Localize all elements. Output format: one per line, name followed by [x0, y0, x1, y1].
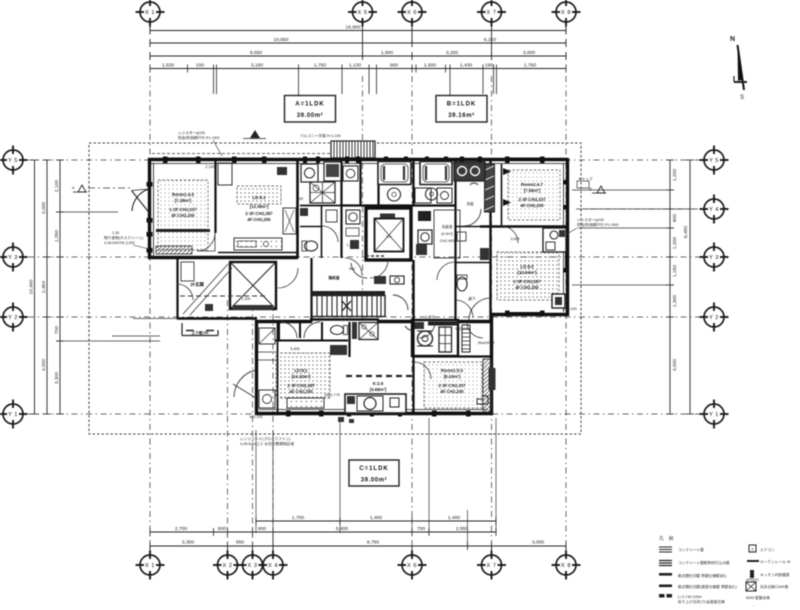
axis marker X4 bottom: [259, 551, 288, 580]
svg-text:LD:8.1: LD:8.1: [294, 368, 308, 373]
svg-text:エアコン: エアコン: [760, 547, 775, 552]
axis marker Y2 right: [700, 303, 729, 332]
corridor door arc mid: [345, 258, 362, 275]
wall C corridor y356: [413, 355, 492, 357]
wall partition x413 upper: [412, 160, 414, 206]
section marker A' right: [589, 186, 606, 193]
legend row concrete insulated wall: [659, 560, 730, 566]
grid line Y4 dash-dot right: [576, 208, 700, 210]
svg-text:洗面: 洗面: [466, 201, 474, 206]
corner fixture cluster unit B top: [454, 162, 485, 185]
svg-text:6,250: 6,250: [484, 37, 497, 43]
svg-text:3,250: 3,250: [446, 50, 459, 56]
toilet A: [302, 241, 318, 251]
svg-text:Y 4: Y 4: [709, 207, 719, 213]
svg-text:Y 2: Y 2: [8, 315, 18, 321]
unit label box A: [285, 96, 336, 123]
svg-text:[4.0m²]: [4.0m²]: [441, 232, 452, 236]
svg-text:折り上げ天井(ウ)全居室仕様: 折り上げ天井(ウ)全居室仕様: [678, 599, 725, 604]
wall partition x455: [454, 160, 456, 320]
svg-text:4,000: 4,000: [41, 202, 47, 215]
washbasin unit A hatched: [310, 182, 335, 203]
unit A LD dotted area: [237, 186, 281, 222]
unit C toilet: [331, 326, 348, 335]
svg-text:X 7: X 7: [487, 563, 497, 569]
svg-text:4,000: 4,000: [672, 359, 678, 372]
svg-text:8,650: 8,650: [250, 50, 263, 56]
svg-text:洗面室: 洗面室: [441, 224, 452, 229]
svg-text:3,300: 3,300: [54, 372, 60, 385]
sliding door marks bedroom B: [503, 168, 511, 175]
axis marker X5 top: [348, 0, 377, 27]
svg-text:2·3F:CH2,337: 2·3F:CH2,337: [438, 383, 466, 388]
wall lower wing top-left segment: [255, 320, 312, 323]
axis marker X7 top: [477, 0, 506, 27]
wall partition x360 upper: [359, 160, 361, 205]
dark cell B: [418, 211, 431, 221]
legend row L=2730: [659, 594, 725, 604]
dimension line top row3: 8,650 / 2,000 / 3,250 / 3,000: [150, 50, 566, 60]
svg-text:2,700: 2,700: [175, 526, 188, 532]
washbasin B: [418, 230, 432, 244]
svg-text:2,550: 2,550: [456, 526, 469, 532]
svg-text:[14.22m²]: [14.22m²]: [292, 374, 311, 379]
wall balcony left face: [153, 163, 155, 256]
svg-text:Y 1: Y 1: [8, 412, 18, 418]
wall bottom of unit A block: [148, 256, 298, 259]
dimension line bottom row2: [150, 526, 496, 536]
svg-text:K:2.6: K:2.6: [373, 381, 384, 386]
svg-text:物干金物(ホスクリーン): 物干金物(ホスクリーン): [104, 235, 143, 240]
svg-text:1,675: 1,675: [425, 315, 434, 319]
extension lines bottom: [256, 418, 496, 547]
stair hall walls: [310, 258, 312, 322]
svg-text:Y 1: Y 1: [709, 412, 719, 418]
wall partition x341: [340, 160, 342, 258]
svg-text:X 6: X 6: [407, 10, 417, 16]
interior door arcs: [177, 226, 518, 379]
svg-text:905: 905: [297, 197, 303, 201]
svg-text:1,500: 1,500: [424, 63, 437, 69]
leader text hosu-kanamono left: [104, 231, 149, 249]
wall stairhall right x413 lower: [412, 260, 414, 322]
svg-text:960: 960: [390, 63, 398, 69]
shower room A dark: [324, 162, 352, 181]
svg-text:廊下: 廊下: [468, 296, 476, 301]
axis marker Y3 left: [0, 243, 28, 272]
svg-text:· ·: · ·: [752, 604, 755, 608]
leader text right side: [567, 217, 619, 234]
unit C kitchen dark block: [412, 320, 458, 356]
axis connector stubs bottom: [150, 532, 566, 554]
closet B hatched strip: [485, 164, 495, 212]
svg-text:3,300: 3,300: [182, 540, 195, 546]
unit label box B: [436, 96, 487, 123]
wall party A/B x297: [296, 160, 299, 258]
axis marker Y3 right: [700, 243, 729, 272]
legend row ceiling access: [746, 578, 789, 591]
svg-text:防虫/防雨網戸付 /FL+500: 防虫/防雨網戸付 /FL+500: [178, 135, 220, 140]
svg-text:乾式間仕切壁 界壁仕様壁含む: 乾式間仕切壁 界壁仕様壁含む: [678, 573, 727, 578]
svg-text:8,750: 8,750: [367, 540, 380, 546]
svg-text:WD,100: WD,100: [249, 415, 262, 419]
wall right inner face: [563, 163, 565, 312]
svg-text:10,450: 10,450: [29, 279, 35, 294]
svg-text:6,450: 6,450: [683, 226, 689, 239]
axis connector stubs top: [150, 23, 566, 56]
dimension line left middle 4,000/2,464/4,000: [41, 160, 51, 414]
svg-text:1,700: 1,700: [292, 515, 305, 521]
legend row kitchen door: [750, 570, 790, 578]
svg-text:[8.10m²]: [8.10m²]: [444, 374, 461, 379]
svg-text:N: N: [730, 36, 735, 43]
svg-text:WD,100: WD,100: [455, 327, 468, 331]
svg-text:1,130: 1,130: [349, 63, 362, 69]
svg-text:2·3F:CH2,387: 2·3F:CH2,387: [245, 211, 273, 216]
unit C corridor dashes: [346, 375, 412, 377]
lower-left strip unit C: [258, 322, 278, 414]
svg-text:190: 190: [485, 63, 493, 69]
svg-text:C=1LDK: C=1LDK: [359, 466, 389, 472]
window openings top wall: [163, 157, 545, 164]
bath unit B2: [420, 162, 452, 201]
svg-text:[7.56m²]: [7.56m²]: [524, 188, 541, 193]
svg-text:LD:8.1: LD:8.1: [252, 195, 266, 200]
dimension line top row4 detail segments: [150, 63, 566, 96]
svg-text:Room1:5.0: Room1:5.0: [441, 368, 464, 373]
svg-text:4F:CH2,250: 4F:CH2,250: [247, 217, 271, 222]
section marker A left: [72, 185, 130, 192]
closet strip right unit C: [483, 359, 491, 412]
svg-text:1,750: 1,750: [524, 63, 537, 69]
svg-text:39.00m²: 39.00m²: [361, 477, 388, 484]
svg-text:700: 700: [54, 326, 60, 334]
genkan shoe box: [181, 262, 194, 281]
corridor small dims: [205, 165, 576, 419]
svg-text:Y 3: Y 3: [8, 255, 18, 261]
svg-text:APW20: APW20: [746, 578, 759, 582]
wall partition A bedroom/LD x215: [214, 160, 216, 233]
svg-text:バルコニー手摺 H=1,100: バルコニー手摺 H=1,100: [300, 133, 341, 138]
svg-text:Room1:4.7: Room1:4.7: [521, 182, 544, 187]
svg-text:コンクリート壁: コンクリート壁: [678, 547, 704, 552]
svg-text:天井点検口450角: 天井点検口450角: [760, 584, 789, 589]
svg-text:6000 配管余長: 6000 配管余長: [746, 595, 770, 600]
dimension line top overall 16,900: [150, 25, 566, 35]
svg-text:3,000: 3,000: [532, 540, 545, 546]
genkan diagonal slope mark: [183, 264, 232, 315]
svg-text:960: 960: [349, 267, 355, 271]
legend row dry partition sound wall: [659, 584, 737, 589]
legend row dry partition wall: [659, 573, 727, 578]
bath B2 lower cells: [415, 188, 452, 203]
svg-text:[4.68m²]: [4.68m²]: [370, 387, 387, 392]
svg-text:600: 600: [218, 526, 226, 532]
void box with X cross: [230, 262, 276, 310]
svg-text:1,300: 1,300: [672, 295, 678, 308]
leader text below plan: [240, 436, 294, 446]
svg-text:950: 950: [236, 540, 244, 546]
unit A furniture marks: [156, 229, 210, 232]
left extension ticks: [56, 212, 160, 341]
wall under stairs: [310, 318, 379, 320]
entry door arc unit C: [233, 370, 256, 398]
svg-text:4F:CH2,200: 4F:CH2,200: [171, 213, 195, 218]
svg-text:コンクリート壁断熱材打込み壁: コンクリート壁断熱材打込み壁: [678, 560, 730, 565]
dimension line right outer: [683, 160, 694, 414]
unit B LD dotted area: [497, 252, 559, 300]
wall A kitchen counter bottom y250: [218, 252, 298, 254]
axis marker X1 top: [136, 0, 165, 27]
svg-text:Y 5: Y 5: [8, 158, 18, 164]
axis marker X2 bottom: [213, 551, 242, 580]
svg-text:X 8: X 8: [561, 10, 571, 16]
washer unit B: [343, 166, 358, 181]
wall lower wing bottom: [255, 412, 493, 415]
svg-text:2·3F:CH2,387: 2·3F:CH2,387: [287, 383, 315, 388]
wall bottom of unit B block: [491, 313, 568, 316]
svg-text:1,400: 1,400: [448, 515, 461, 521]
axis marker X3 bottom: [238, 551, 267, 580]
grid line X6 dash-dot: [411, 76, 413, 550]
section marker top filled: [243, 130, 266, 139]
svg-text:4,28-6SSTA/上400: 4,28-6SSTA/上400: [104, 240, 135, 245]
svg-text:キャップ: キャップ: [578, 176, 593, 181]
svg-text:階段室: 階段室: [328, 275, 339, 280]
svg-text:2,464: 2,464: [41, 281, 47, 294]
grid line X4 dash-dot: [272, 300, 274, 550]
svg-text:レンジフード(プロペラファン): レンジフード(プロペラファン): [240, 436, 290, 441]
axis marker X8 bottom: [552, 551, 581, 580]
closet box LD A: [218, 163, 232, 185]
svg-text:レジスターφ100: レジスターφ100: [178, 130, 205, 135]
svg-text:2F玄関: 2F玄関: [190, 281, 204, 288]
axis marker Y1 right: [700, 400, 729, 429]
grid line X7 dash-dot: [491, 76, 493, 550]
svg-text:UB:1,775: UB:1,775: [324, 393, 339, 397]
svg-text:1,530: 1,530: [162, 63, 175, 69]
svg-text:4F:CH2,250: 4F:CH2,250: [515, 285, 539, 290]
balcony door arc unit A: [132, 189, 150, 213]
washer unit A: [301, 164, 318, 182]
svg-text:SteelShelf: SteelShelf: [478, 341, 496, 345]
svg-text:10,650: 10,650: [274, 37, 289, 43]
svg-text:3,625: 3,625: [510, 237, 519, 241]
axis marker X1 bottom: [136, 551, 165, 580]
site boundary dashed rectangle: [89, 143, 581, 434]
svg-text:L=2,730-100m: L=2,730-100m: [678, 595, 702, 599]
dark kitchen box B: [552, 294, 565, 308]
genkan dashed floor: [180, 295, 265, 297]
svg-text:エ: エ: [751, 547, 755, 551]
staircase treads: [312, 291, 385, 317]
axis marker Y2 left: [0, 303, 28, 332]
svg-text:X 8: X 8: [561, 563, 571, 569]
axis marker X6 bottom: [398, 551, 427, 580]
svg-text:X 7: X 7: [487, 10, 497, 16]
wall lower wing top-right segment: [377, 320, 492, 323]
dimension line bottom row3: [256, 515, 496, 525]
svg-text:上り框150: 上り框150: [191, 330, 208, 335]
grid line X1 dash-dot: [149, 76, 151, 550]
svg-text:凡 例: 凡 例: [659, 535, 675, 542]
wall partition x378 upper: [377, 160, 379, 206]
svg-text:1,430: 1,430: [460, 63, 473, 69]
svg-text:1,900: 1,900: [381, 50, 394, 56]
outdoor stair top hatched: [331, 141, 375, 158]
grid line Y2 dash-dot: [28, 316, 700, 318]
unit C bathroom cluster top: [275, 322, 417, 357]
wall B closet x501: [501, 164, 503, 226]
svg-text:800: 800: [672, 214, 678, 222]
axis marker X6 top: [398, 0, 427, 27]
wall outer left: [148, 158, 151, 259]
axis marker Y5 right: [700, 146, 729, 175]
unit C bedroom dashed inner: [424, 362, 482, 408]
svg-text:X 1: X 1: [145, 563, 155, 569]
WC cell B2: [455, 227, 491, 263]
svg-text:4,28-63A/上う 水切付着規制区域: 4,28-63A/上う 水切付着規制区域: [240, 441, 294, 446]
svg-text:防虫/防雨網戸付 /FL+500: 防虫/防雨網戸付 /FL+500: [577, 222, 619, 227]
svg-text:カーテンレール W: カーテンレール W: [760, 559, 791, 564]
wall corridor B x490: [489, 160, 491, 322]
axis marker Y4 right: [700, 195, 729, 224]
svg-text:[13.36m²]: [13.36m²]: [250, 204, 269, 209]
svg-text:S: S: [740, 95, 744, 101]
svg-text:1,400: 1,400: [370, 515, 383, 521]
svg-text:レジスターφ100: レジスターφ100: [577, 217, 604, 222]
svg-text:700: 700: [417, 526, 425, 532]
svg-text:[13.54m²]: [13.54m²]: [518, 270, 537, 275]
svg-text:X 2: X 2: [223, 563, 233, 569]
grid line Y3 dash-dot: [28, 256, 700, 258]
grid line Y5 dash-dot: [28, 159, 700, 161]
hall A fixtures: [283, 208, 296, 234]
shelf ladder strip unit C: [462, 325, 470, 352]
svg-text:キッチン内部建具: キッチン内部建具: [760, 572, 790, 577]
svg-text:4F:CH2,250: 4F:CH2,250: [289, 389, 313, 394]
wall bath row y205: [341, 204, 455, 206]
unit C K text: [370, 381, 387, 392]
unit C K sink unit: [345, 394, 406, 413]
bath unit B1: [378, 162, 411, 202]
svg-text:4,000: 4,000: [41, 359, 47, 372]
unit label box C: [349, 460, 399, 486]
unit A bedroom dashed inner: [158, 180, 208, 250]
svg-text:Y 2: Y 2: [709, 315, 719, 321]
svg-text:1·2F:CH2,337: 1·2F:CH2,337: [169, 207, 197, 212]
wall lower wing right: [490, 314, 493, 415]
WC cell A walls: [300, 205, 341, 258]
leader text top middle: [300, 133, 341, 138]
window openings bottom wall: [286, 411, 471, 417]
dimension line left inner details: [54, 160, 64, 414]
threshold dashes hall A: [366, 255, 386, 257]
wall B bedroom bottom y226: [480, 225, 568, 227]
svg-text:1,200: 1,200: [672, 237, 678, 250]
grid line X3 dash-dot: [252, 300, 254, 550]
svg-text:150: 150: [196, 63, 204, 69]
svg-text:2·3F:CH2,387: 2·3F:CH2,387: [513, 279, 541, 284]
svg-text:4F:CH2,200: 4F:CH2,200: [440, 389, 464, 394]
svg-text:A': A': [589, 187, 592, 191]
unit C LD dotted area: [276, 353, 330, 398]
elevator shaft: [366, 208, 411, 260]
leader text top-left of plan: [178, 130, 222, 156]
svg-text:CH2,400: CH2,400: [440, 239, 455, 243]
legend row aircon: [749, 545, 775, 552]
svg-text:3,190: 3,190: [251, 63, 264, 69]
washroom B texts: [434, 210, 460, 258]
north arrow: [730, 36, 747, 101]
legend row piping: [746, 595, 770, 600]
svg-text:16,900: 16,900: [346, 25, 361, 31]
wall lower wing left: [255, 320, 258, 415]
svg-text:B=1LDK: B=1LDK: [447, 102, 477, 108]
dimension line bottom row1: [150, 540, 566, 551]
hall B door arcs: [455, 209, 481, 318]
svg-text:1,050: 1,050: [54, 230, 60, 243]
svg-text:LD:8.0: LD:8.0: [520, 264, 534, 269]
right extension ticks: [572, 190, 694, 285]
svg-text:5,400: 5,400: [336, 526, 349, 532]
kitchen counter unit B right: [543, 228, 566, 252]
svg-text:X 5: X 5: [358, 10, 368, 16]
wall outer right: [566, 158, 569, 316]
window openings right wall: [563, 180, 569, 273]
axis marker Y5 left: [0, 146, 28, 175]
svg-text:[7.28m²]: [7.28m²]: [175, 198, 192, 203]
axis marker X7 bottom: [477, 551, 506, 580]
svg-text:39.00m²: 39.00m²: [297, 112, 324, 119]
svg-text:39.16m²: 39.16m²: [448, 112, 475, 119]
wall outer top inner face: [150, 163, 566, 165]
dimension line left outer total: [29, 160, 39, 414]
svg-text:X 4: X 4: [268, 563, 278, 569]
balcony door dark block right wall C: [489, 368, 496, 390]
svg-text:WD,100: WD,100: [563, 307, 576, 311]
svg-text:X 1: X 1: [145, 10, 155, 16]
svg-text:Y 5: Y 5: [709, 158, 719, 164]
hall A washbasin: [346, 210, 360, 249]
svg-text:乾式間仕切壁(遮音仕様壁 界壁含む): 乾式間仕切壁(遮音仕様壁 界壁含む): [678, 584, 737, 589]
vent marks below wing: [338, 417, 344, 422]
svg-text:Room1:4.5: Room1:4.5: [172, 192, 195, 197]
svg-text:1,750: 1,750: [314, 63, 327, 69]
svg-text:1,300: 1,300: [241, 297, 250, 301]
svg-text:2·3F:CH2,337: 2·3F:CH2,337: [518, 197, 546, 202]
legend row concrete wall: [659, 547, 704, 552]
grid line X8 dash-dot: [565, 76, 567, 550]
axis marker X8 top: [552, 0, 581, 27]
unit C kitchen counter hatch: [287, 398, 324, 408]
wall outer top: [148, 158, 568, 161]
svg-text:X 3: X 3: [248, 563, 258, 569]
leader text right cap: [577, 176, 593, 188]
svg-text:3,000: 3,000: [523, 50, 536, 56]
dimension line right inner: [666, 160, 678, 414]
grid line X5 dash-dot: [362, 76, 364, 322]
dimension line top row2: 10,650 / 6,250: [150, 37, 566, 47]
window openings unit B bottom wall: [505, 311, 545, 317]
washer B dark box: [416, 244, 427, 255]
svg-text:1,200: 1,200: [672, 169, 678, 182]
wall lower wing bottom inner face: [259, 409, 488, 411]
svg-text:2,100: 2,100: [54, 180, 60, 193]
roof dashed outline above plan: [152, 153, 330, 155]
svg-text:1,30: 1,30: [112, 231, 119, 235]
svg-text:EV: EV: [387, 235, 392, 239]
